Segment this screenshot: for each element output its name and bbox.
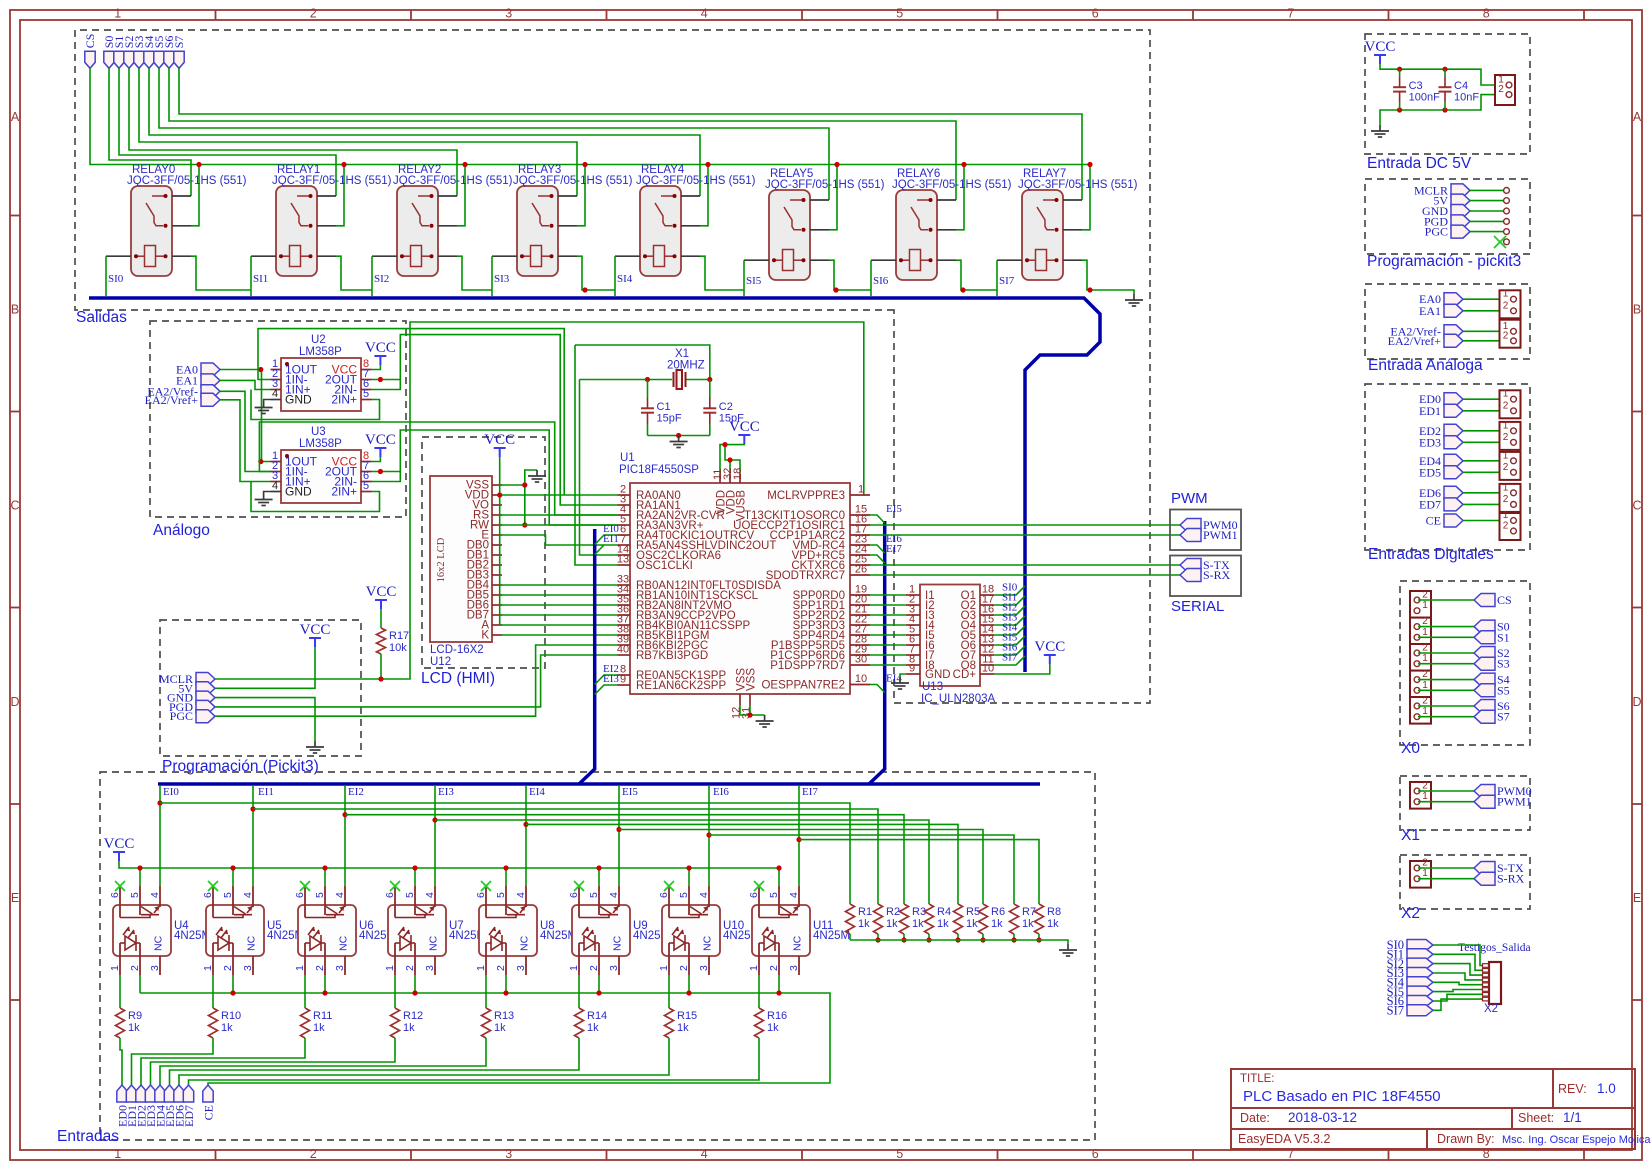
- wire U11 pin1 to R16: [758, 975, 760, 1008]
- connector header Entrada DC: [1495, 75, 1515, 105]
- wire S4 from header: [1418, 679, 1474, 681]
- svg-text:SI5: SI5: [746, 275, 762, 287]
- port flag CS: [1474, 594, 1495, 607]
- port flag S2: [1474, 647, 1495, 660]
- wire EA2/Vref+ to header: [1463, 340, 1508, 342]
- port flag S7: [1474, 710, 1495, 723]
- svg-text:NC: NC: [428, 935, 440, 951]
- junction VDD wire 2: [727, 457, 732, 462]
- svg-text:R11: R11: [313, 1010, 332, 1022]
- wire ED6 to header: [1463, 492, 1508, 494]
- svg-text:2IN+: 2IN+: [331, 393, 357, 407]
- box PWM: [1170, 510, 1241, 551]
- svg-text:LCD-16X2: LCD-16X2: [430, 644, 484, 656]
- svg-text:VCC: VCC: [484, 432, 515, 448]
- svg-text:2: 2: [404, 965, 416, 971]
- junction VCC rail 4: [503, 865, 508, 870]
- wire R4 bottom: [928, 934, 930, 940]
- wire S1 to RELAY1: [119, 68, 336, 196]
- svg-text:VCC: VCC: [300, 622, 331, 638]
- wire R12 to ED3: [151, 1038, 396, 1085]
- port flag PGC pickit3-left: [196, 710, 215, 723]
- junction EI2 feed: [342, 812, 347, 817]
- resistor R15 1k: [665, 1008, 674, 1038]
- header Entradas Digitales 1: [1500, 390, 1521, 418]
- svg-text:1: 1: [114, 1147, 121, 1161]
- svg-text:P1DSPP7RD7: P1DSPP7RD7: [770, 660, 845, 672]
- svg-text:SI7: SI7: [1387, 1004, 1404, 1018]
- junction pin2 line 3: [412, 990, 417, 995]
- junction EI7 feed: [796, 837, 801, 842]
- svg-text:3: 3: [424, 965, 436, 971]
- wire U10 pin1 to R15: [668, 975, 670, 1008]
- junction VDD wire 1: [722, 442, 727, 447]
- port flag S-TX: [1180, 559, 1201, 572]
- junction VCC rail 5: [596, 865, 601, 870]
- svg-text:X0: X0: [1401, 740, 1420, 757]
- bus entry EI3: [595, 685, 618, 695]
- port flag ED5 right: [1444, 466, 1463, 479]
- wire EI6 from bus to opto pin4: [708, 786, 710, 886]
- port flag PGC pickit3-right: [1451, 225, 1470, 238]
- junction C4 bottom: [1442, 107, 1447, 112]
- driver U13 IC_ULN2803A: [920, 585, 980, 687]
- svg-text:6: 6: [475, 892, 487, 898]
- svg-text:CE: CE: [202, 1105, 216, 1120]
- ground symbol below caps: [670, 436, 688, 448]
- port flag SI2 testigos: [1407, 958, 1433, 969]
- svg-text:JQC-3FF/05-1HS (551): JQC-3FF/05-1HS (551): [513, 175, 633, 187]
- junction EI6 feed: [706, 832, 711, 837]
- svg-text:6: 6: [748, 892, 760, 898]
- wire SI4 coil left to bus: [614, 256, 616, 296]
- svg-text:5: 5: [495, 892, 507, 898]
- junction on SI return line: [1087, 287, 1092, 292]
- svg-text:2: 2: [1503, 432, 1509, 443]
- svg-text:1: 1: [658, 965, 670, 971]
- svg-text:R10: R10: [221, 1010, 241, 1022]
- crystal X1 20MHZ: [674, 370, 686, 389]
- svg-text:R16: R16: [767, 1010, 787, 1022]
- svg-text:R12: R12: [403, 1010, 423, 1022]
- capacitor C2 15pF: [709, 380, 711, 398]
- wire S2 to RELAY2: [129, 68, 457, 196]
- bus entry SI5 from ULN O6: [994, 636, 1025, 645]
- wire PIC VSS to ground: [740, 706, 765, 716]
- optocoupler U10 4N25M: [662, 905, 720, 956]
- capacitor C1 15pF: [647, 380, 649, 398]
- junction U3 pin7: [378, 469, 383, 474]
- svg-text:1k: 1k: [937, 918, 949, 930]
- wire EI5 feed to R6: [619, 830, 983, 905]
- svg-text:1: 1: [475, 965, 487, 971]
- wire VCC drop to U7 pin5: [414, 868, 416, 886]
- svg-text:Drawn By:: Drawn By:: [1437, 1132, 1495, 1146]
- header Entradas Digitales 4: [1500, 484, 1521, 512]
- pin circle PGD: [1504, 219, 1510, 225]
- svg-text:1: 1: [1422, 706, 1428, 717]
- resistor R11 1k: [301, 1008, 310, 1038]
- net flag S2: [124, 51, 134, 68]
- wire U5 pin2 down: [232, 975, 234, 993]
- svg-text:1k: 1k: [991, 918, 1003, 930]
- wire coil right RELAY3: [577, 256, 615, 290]
- svg-text:VCC: VCC: [365, 432, 396, 448]
- svg-text:6: 6: [1092, 7, 1099, 21]
- bus entry SI0 from ULN O1: [994, 586, 1025, 595]
- junction VSS: [747, 712, 752, 717]
- svg-text:RB7KBI3PGD: RB7KBI3PGD: [636, 650, 708, 662]
- wire S6 from header: [1418, 705, 1474, 707]
- svg-text:2: 2: [1503, 400, 1509, 411]
- svg-text:5: 5: [404, 892, 416, 898]
- wire LCD DB row 625: [502, 624, 618, 626]
- svg-text:JQC-3FF/05-1HS (551): JQC-3FF/05-1HS (551): [765, 179, 885, 191]
- wire VCC to connector pin1: [1380, 64, 1495, 85]
- wire CS from header: [1418, 599, 1474, 601]
- wire U3 GND pin4: [264, 492, 271, 494]
- svg-text:X1: X1: [1401, 827, 1420, 844]
- wire R13 to ED4: [160, 1038, 486, 1085]
- section box Programacion pickit3 right: [1365, 179, 1530, 254]
- optocoupler U4 4N25M: [113, 905, 171, 956]
- bus entry EI4: [870, 685, 885, 693]
- svg-text:IC_ULN2803A: IC_ULN2803A: [921, 693, 995, 705]
- svg-text:PIC18F4550SP: PIC18F4550SP: [619, 464, 699, 476]
- svg-text:CD+: CD+: [953, 669, 977, 681]
- svg-text:4: 4: [701, 1147, 708, 1161]
- header X0 group 1: [1410, 591, 1431, 618]
- relay RELAY5 JQC-3FF/05-1HS (551): [769, 190, 810, 280]
- svg-text:1: 1: [568, 965, 580, 971]
- port flag S-RX at X2: [1474, 872, 1495, 885]
- svg-text:VCC: VCC: [104, 836, 135, 852]
- wire EI3 from bus to opto pin4: [434, 786, 436, 886]
- svg-text:1k: 1k: [677, 1022, 689, 1034]
- port flag EA2/Vref+ right: [1444, 334, 1463, 347]
- wire VCC to LCD VDD and A: [499, 457, 501, 625]
- svg-text:VCC: VCC: [1365, 39, 1396, 55]
- pin circle GND: [1504, 208, 1510, 214]
- pin circle PGC: [1504, 229, 1510, 235]
- optocoupler U9 4N25M: [572, 905, 630, 956]
- svg-text:Entrada DC 5V: Entrada DC 5V: [1367, 155, 1472, 172]
- svg-text:2: 2: [768, 965, 780, 971]
- wire PIC pin25 to S-TX: [870, 564, 1180, 566]
- svg-text:NC: NC: [792, 935, 804, 951]
- optocoupler U7 4N25M: [388, 905, 446, 956]
- svg-text:7: 7: [1287, 7, 1294, 21]
- svg-text:6: 6: [109, 892, 121, 898]
- svg-text:B: B: [11, 303, 19, 317]
- wire coil right RELAY7: [1082, 260, 1090, 290]
- svg-text:JQC-3FF/05-1HS (551): JQC-3FF/05-1HS (551): [892, 179, 1012, 191]
- wire PIC RD5 to ULN I6: [870, 644, 906, 646]
- svg-text:GND: GND: [925, 669, 951, 681]
- junction pin2 line 6: [686, 990, 691, 995]
- port flag EA0: [201, 363, 220, 376]
- svg-text:2: 2: [222, 965, 234, 971]
- wire U6 pin2 down: [324, 975, 326, 993]
- port flag EA2/Vref-: [201, 385, 220, 398]
- pin circle MCLR: [1504, 188, 1510, 194]
- svg-text:30: 30: [855, 654, 867, 666]
- bus entry EI6: [870, 545, 885, 553]
- svg-text:REV:: REV:: [1558, 1082, 1587, 1096]
- junction at LCD VSS: [522, 482, 527, 487]
- port flag S5: [1474, 684, 1495, 697]
- relay RELAY1 JQC-3FF/05-1HS (551): [276, 186, 317, 276]
- wire GND to pin: [1470, 210, 1504, 212]
- section box Entradas: [100, 772, 1095, 1140]
- wire U2 2OUT long line to PIC RA1: [400, 335, 617, 505]
- port flag S-TX at X2: [1474, 862, 1495, 875]
- svg-text:1: 1: [1422, 653, 1428, 664]
- svg-text:1k: 1k: [403, 1022, 415, 1034]
- junction C4 top: [1442, 67, 1447, 72]
- junction R ladder 3: [926, 937, 931, 942]
- relay RELAY0 JQC-3FF/05-1HS (551): [131, 186, 172, 276]
- ground symbol ULN: [891, 677, 909, 689]
- port flag SI5 testigos: [1407, 986, 1433, 997]
- svg-text:JQC-3FF/05-1HS (551): JQC-3FF/05-1HS (551): [636, 175, 756, 187]
- bus EI left vertical: [579, 529, 595, 784]
- svg-text:R1: R1: [858, 906, 872, 918]
- wire EI2 from bus to opto pin4: [344, 786, 346, 886]
- svg-text:5: 5: [129, 892, 141, 898]
- svg-text:PGC: PGC: [170, 709, 193, 723]
- svg-text:D: D: [10, 695, 19, 709]
- port flag ED4: [155, 1085, 165, 1102]
- wire U2 pin5 loop: [251, 390, 380, 420]
- vcc symbol Entradas: [113, 852, 125, 861]
- svg-text:2: 2: [310, 7, 317, 21]
- port flag SI1 testigos: [1407, 949, 1433, 960]
- svg-text:1: 1: [748, 965, 760, 971]
- wire PIC RD0 to ULN I1: [870, 594, 906, 596]
- svg-text:1k: 1k: [494, 1022, 506, 1034]
- svg-text:R14: R14: [587, 1010, 607, 1022]
- vcc symbol at R17: [375, 600, 387, 609]
- wire S-RX from header: [1418, 878, 1474, 880]
- port flag S6: [1474, 700, 1495, 713]
- svg-text:EasyEDA V5.3.2: EasyEDA V5.3.2: [1238, 1132, 1330, 1146]
- wire LCD DB5 row 595: [502, 594, 618, 596]
- section box LCD (HMI): [422, 437, 545, 668]
- svg-text:PWM1: PWM1: [1203, 528, 1238, 542]
- wire R8 bottom: [1038, 934, 1040, 940]
- wire S7 from header: [1418, 716, 1474, 718]
- port flag ED6: [174, 1085, 184, 1102]
- svg-text:ED3: ED3: [1419, 435, 1441, 449]
- svg-text:6: 6: [294, 892, 306, 898]
- svg-text:C: C: [10, 499, 19, 513]
- svg-text:13: 13: [617, 554, 629, 566]
- svg-text:EI3: EI3: [438, 786, 454, 798]
- svg-text:3: 3: [788, 965, 800, 971]
- wire ULN GND to ground: [900, 674, 906, 677]
- svg-text:4: 4: [272, 480, 278, 492]
- junction pin2 line 5: [596, 990, 601, 995]
- wire RW row to PIC RA3: [502, 524, 618, 526]
- wire U2 pin8 to VCC: [372, 365, 381, 370]
- vcc symbol at U3: [374, 448, 386, 457]
- svg-text:1/1: 1/1: [1563, 1110, 1582, 1125]
- svg-text:S7: S7: [172, 36, 186, 49]
- op-amp U3 LM358P: [281, 450, 361, 503]
- svg-text:C1: C1: [657, 401, 671, 413]
- bus entry SI7 from ULN O8: [994, 656, 1025, 665]
- svg-text:R13: R13: [494, 1010, 514, 1022]
- svg-text:9: 9: [620, 674, 626, 686]
- svg-text:B: B: [1633, 303, 1641, 317]
- svg-text:EI6: EI6: [713, 786, 729, 798]
- svg-text:10: 10: [982, 663, 994, 675]
- svg-text:NC: NC: [153, 935, 165, 951]
- svg-text:1k: 1k: [858, 918, 870, 930]
- junction on CS line at RELAY3: [582, 162, 587, 167]
- svg-text:2: 2: [1503, 300, 1509, 311]
- section box Entradas Digitales: [1365, 384, 1530, 550]
- net flag S7: [174, 51, 184, 68]
- svg-text:VCC: VCC: [365, 340, 396, 356]
- wire S2 from header: [1418, 652, 1474, 654]
- junction VCC rail 0: [137, 865, 142, 870]
- port flag SI0 testigos: [1407, 940, 1433, 951]
- junction R ladder 5: [980, 937, 985, 942]
- svg-text:C3: C3: [1409, 80, 1423, 92]
- port flag PWM0 at X1: [1474, 785, 1495, 798]
- svg-text:S-RX: S-RX: [1497, 872, 1525, 886]
- wire S3 to RELAY3: [139, 68, 577, 196]
- svg-text:C2: C2: [719, 401, 733, 413]
- junction VCC rail 6: [686, 865, 691, 870]
- resistor R7 1k: [1010, 904, 1019, 934]
- svg-text:2: 2: [1503, 330, 1509, 341]
- wire SI5 coil left to bus: [743, 260, 745, 296]
- section box X0: [1400, 581, 1530, 745]
- svg-text:1k: 1k: [1047, 918, 1059, 930]
- wire S4 to RELAY4: [149, 68, 700, 196]
- wire SI7 to connector X2: [1433, 999, 1483, 1010]
- junction U2 pin7: [378, 377, 383, 382]
- wire CS drop to RELAY0: [191, 165, 199, 226]
- svg-text:2IN+: 2IN+: [331, 485, 357, 499]
- svg-text:U13: U13: [922, 681, 943, 693]
- wire coil right RELAY0: [191, 256, 251, 290]
- svg-text:ED5: ED5: [1419, 465, 1441, 479]
- svg-text:3: 3: [608, 965, 620, 971]
- svg-text:EI0: EI0: [163, 786, 179, 798]
- svg-text:1k: 1k: [313, 1022, 325, 1034]
- svg-text:1: 1: [1503, 420, 1509, 431]
- svg-text:X2: X2: [1484, 1003, 1498, 1015]
- svg-text:S-RX: S-RX: [1203, 568, 1231, 582]
- wire PGD to pin: [1470, 220, 1504, 222]
- wire VSS-RW ground link: [524, 485, 526, 525]
- junction VCC rail 7: [776, 865, 781, 870]
- svg-text:SI7: SI7: [999, 275, 1015, 287]
- wire SI4 to connector X2: [1433, 982, 1483, 984]
- svg-text:SERIAL: SERIAL: [1171, 598, 1224, 615]
- wire coil right RELAY4: [700, 256, 744, 290]
- port flag S-RX: [1180, 569, 1201, 582]
- svg-text:3: 3: [505, 1147, 512, 1161]
- svg-text:U2: U2: [311, 334, 326, 346]
- header X2: [1410, 861, 1431, 888]
- port flag GND pickit3-right: [1451, 205, 1470, 218]
- wire R14 to ED5: [170, 1038, 580, 1085]
- net flag CS: [85, 51, 95, 68]
- port flag ED7: [183, 1085, 193, 1102]
- port flag MCLR pickit3-right: [1451, 184, 1470, 197]
- header X0 group 4: [1410, 671, 1431, 698]
- wire OSC1 top line: [575, 345, 710, 380]
- wire U4 pin1 to R9: [119, 975, 121, 1008]
- svg-text:EI4: EI4: [529, 786, 545, 798]
- wire crystal row: [580, 379, 673, 381]
- junction C3 top: [1397, 67, 1402, 72]
- port flag S4: [1474, 673, 1495, 686]
- junction EI4 feed: [523, 822, 528, 827]
- wire VCC drop to U10 pin5: [688, 868, 690, 886]
- header Entrada Analoga 1: [1500, 290, 1521, 318]
- svg-text:EI5: EI5: [622, 786, 638, 798]
- svg-text:EA2/Vref+: EA2/Vref+: [145, 393, 199, 407]
- wire S5 to RELAY5: [159, 68, 829, 200]
- svg-text:1k: 1k: [886, 918, 898, 930]
- port flag SI7 testigos: [1407, 1005, 1433, 1016]
- svg-text:GND: GND: [285, 393, 312, 407]
- wire ED0 to header: [1463, 398, 1508, 400]
- svg-text:JQC-3FF/05-1HS (551): JQC-3FF/05-1HS (551): [127, 175, 247, 187]
- svg-text:U3: U3: [311, 426, 326, 438]
- wire U2 GND pin4: [264, 400, 271, 402]
- header X1: [1410, 782, 1431, 809]
- wire VCC drop to U6 pin5: [324, 868, 326, 886]
- svg-text:Programación - pickit3: Programación - pickit3: [1367, 253, 1521, 270]
- wire U9 pin2 down: [598, 975, 600, 993]
- wire CS line: [90, 68, 1090, 164]
- wire U7 pin1 to R12: [394, 975, 396, 1008]
- wire EA2/Vref- to header: [1463, 330, 1508, 332]
- svg-text:4: 4: [272, 388, 278, 400]
- port flag PWM1: [1180, 529, 1201, 542]
- port flag EA2/Vref+: [201, 393, 220, 406]
- wire PIC RD1 to ULN I2: [870, 604, 906, 606]
- box SERIAL: [1170, 556, 1241, 597]
- svg-text:2: 2: [495, 965, 507, 971]
- port flag ED3 right: [1444, 436, 1463, 449]
- bus entry EI5: [870, 515, 885, 523]
- wire PIC RD3 to ULN I4: [870, 624, 906, 626]
- section box Analogo: [150, 321, 406, 517]
- svg-text:2018-03-12: 2018-03-12: [1288, 1110, 1357, 1125]
- svg-text:PGC: PGC: [1425, 225, 1448, 239]
- junction VCC rail 2: [322, 865, 327, 870]
- svg-text:2: 2: [1422, 696, 1428, 707]
- svg-text:1: 1: [1422, 868, 1428, 879]
- op-amp U2 LM358P: [281, 358, 361, 411]
- wire R16 to ED7: [189, 1038, 760, 1085]
- svg-text:1k: 1k: [966, 918, 978, 930]
- vcc symbol above LCD: [494, 448, 506, 457]
- svg-text:S3: S3: [1497, 657, 1510, 671]
- wire SI1 coil left to bus: [250, 256, 252, 296]
- svg-text:9: 9: [909, 663, 915, 675]
- wire EI7 feed to R8: [799, 840, 1039, 904]
- svg-text:LM358P: LM358P: [299, 438, 342, 450]
